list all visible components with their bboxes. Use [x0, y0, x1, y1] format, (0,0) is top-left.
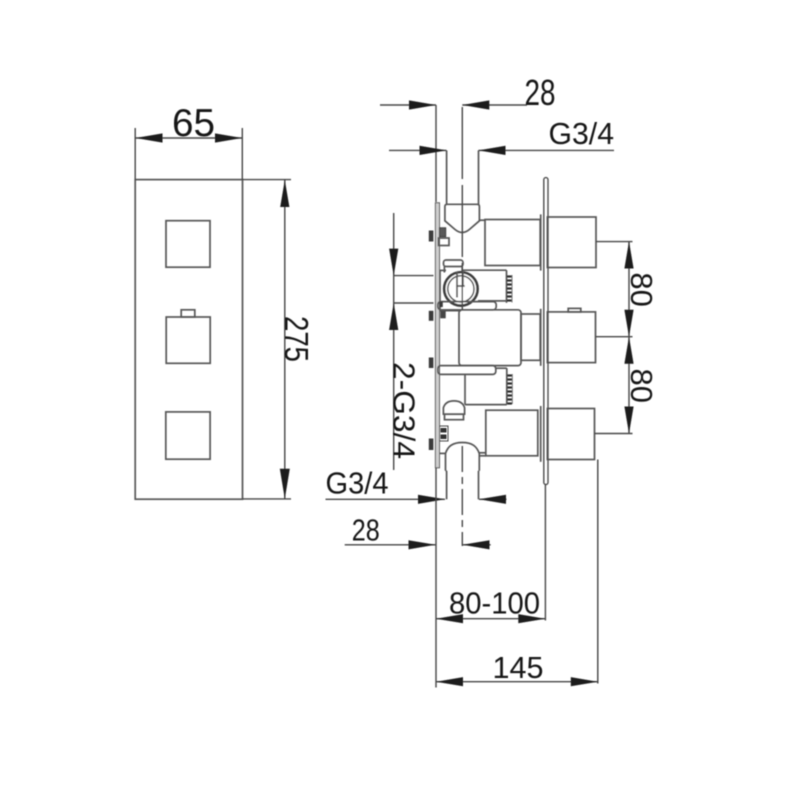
svg-text:80: 80: [624, 369, 659, 404]
svg-text:28: 28: [525, 72, 556, 113]
svg-text:145: 145: [493, 650, 544, 685]
svg-text:275: 275: [278, 316, 315, 362]
svg-text:2-G3/4: 2-G3/4: [387, 362, 422, 459]
svg-text:80: 80: [624, 272, 659, 307]
svg-text:65: 65: [172, 102, 215, 145]
svg-text:G3/4: G3/4: [549, 116, 615, 151]
svg-text:G3/4: G3/4: [326, 466, 389, 501]
svg-text:80-100: 80-100: [449, 586, 540, 621]
svg-text:28: 28: [352, 513, 380, 548]
